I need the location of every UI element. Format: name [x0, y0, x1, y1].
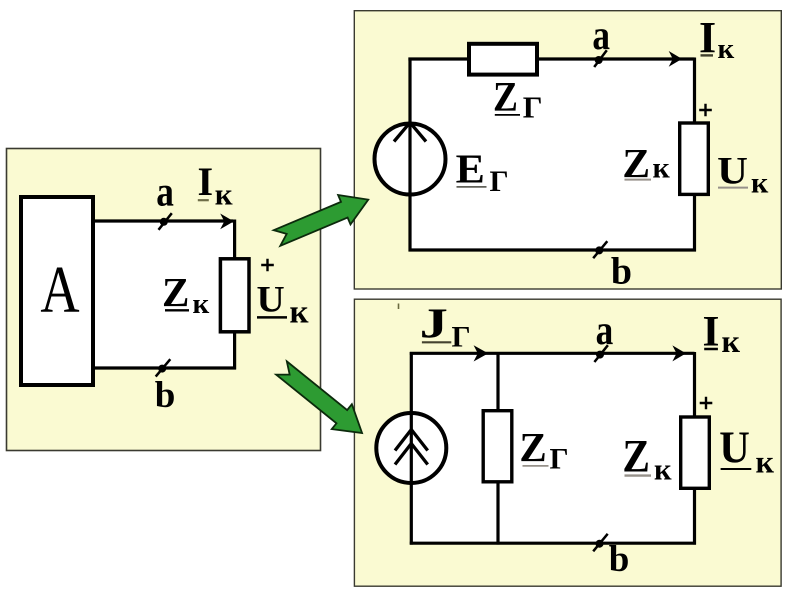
wire right vertical bottom (Thevenin) — [693, 196, 696, 252]
label A — [40, 253, 79, 327]
node a slash mark (left panel) — [159, 213, 172, 230]
svg-text:Z: Z — [493, 74, 518, 120]
label Uk (Thevenin) — [717, 148, 769, 200]
svg-text:к: к — [290, 295, 309, 331]
current arrowhead Ik (left panel) — [220, 214, 234, 230]
EMF source Eg arrow barbs — [394, 123, 426, 142]
current source Jg chevron 2 — [395, 444, 428, 465]
Thevenin circuit interior (white) — [410, 59, 695, 250]
node a label (left panel) — [156, 169, 174, 216]
svg-text:Г: Г — [523, 89, 543, 124]
label Uk (left panel) — [256, 280, 308, 331]
impedance Zg shunt box (Norton) — [483, 411, 512, 482]
wire top a (left panel) — [95, 219, 233, 222]
top-right panel (Thevenin equivalent circuit) — [354, 11, 781, 289]
svg-text:U: U — [717, 148, 748, 192]
svg-text:к: к — [722, 323, 741, 359]
polarity plus (Norton) — [700, 397, 713, 410]
svg-text:к: к — [756, 444, 775, 480]
label Zk (Norton) — [622, 430, 672, 486]
svg-text:Г: Г — [490, 165, 509, 198]
label Zk (Thevenin) — [622, 140, 670, 186]
svg-text:J: J — [420, 299, 448, 347]
left panel (active two-terminal network) — [7, 149, 321, 451]
wire right vertical top (left panel) — [233, 220, 236, 259]
current arrowhead Ik (Norton) — [672, 345, 686, 361]
label Zk (left panel) — [162, 269, 209, 320]
current arrowhead Jg (Norton) — [474, 345, 489, 361]
Norton circuit interior (white) — [411, 353, 694, 543]
node b slash mark (Thevenin) — [593, 241, 607, 258]
left panel circuit interior (white) — [95, 221, 235, 368]
label Zg (Norton) — [519, 424, 568, 476]
equivalence arrow to Norton (lower green arrow) — [271, 356, 372, 446]
polarity plus (left panel) — [261, 259, 274, 272]
node b slash mark (Norton) — [593, 534, 608, 552]
current arrowhead Ik (Thevenin) — [669, 51, 682, 67]
wire bottom (Norton) — [410, 542, 696, 545]
EMF source Eg circle (Thevenin) — [375, 124, 446, 195]
node a label (Norton) — [596, 307, 614, 354]
label Uk (Norton) — [719, 422, 774, 480]
svg-text:Z: Z — [622, 430, 650, 482]
node a slash mark (Norton) — [594, 345, 608, 362]
wire top-left (Thevenin) — [408, 57, 469, 60]
current source Jg arrow shaft — [410, 411, 413, 485]
svg-text:a: a — [596, 307, 614, 354]
wire bottom (Thevenin) — [409, 248, 697, 251]
node a slash mark (Thevenin) — [594, 50, 607, 67]
wire right vertical bottom (Norton) — [693, 488, 696, 545]
label Eg (Thevenin) — [456, 147, 509, 198]
impedance Zg series box (Thevenin) — [469, 44, 537, 75]
svg-text:к: к — [718, 33, 735, 65]
svg-text:к: к — [654, 453, 672, 487]
svg-text:U: U — [256, 280, 284, 321]
impedance Zk load box (left panel) — [220, 259, 249, 332]
wire top (Zg to node a to corner, Thevenin) — [537, 57, 695, 60]
svg-text:b: b — [611, 251, 632, 293]
impedance Zk load box (Norton) — [681, 417, 710, 488]
wire Zg branch top (Norton) — [496, 353, 499, 410]
svg-text:b: b — [609, 539, 630, 580]
node b slash mark (left panel) — [156, 359, 171, 376]
svg-text:к: к — [193, 288, 210, 320]
current source Jg circle (Norton) — [376, 413, 446, 483]
svg-text:к: к — [653, 152, 671, 185]
wire Zg branch bottom (Norton) — [496, 482, 499, 545]
node a label (Thevenin) — [592, 12, 610, 59]
label Ik (left panel) — [198, 159, 233, 212]
svg-text:I: I — [198, 159, 214, 204]
wire left vertical (Norton) — [410, 352, 413, 545]
svg-text:Г: Г — [452, 320, 471, 353]
current source Jg chevron 1 — [395, 430, 428, 451]
wire right vertical top (Thevenin) — [693, 58, 696, 123]
wire bottom b (left panel) — [95, 366, 236, 369]
svg-text:a: a — [156, 169, 174, 216]
label Ik (Norton) — [703, 307, 741, 359]
svg-text:к: к — [751, 167, 769, 200]
svg-text:a: a — [592, 12, 610, 59]
svg-text:к: к — [215, 177, 233, 212]
svg-text:E: E — [456, 147, 485, 192]
label Jg (Norton) — [420, 299, 471, 353]
block A (active network box) — [21, 197, 93, 385]
wire right vertical bottom (left panel) — [233, 332, 236, 370]
wire left vertical (Thevenin) — [408, 58, 411, 252]
svg-text:U: U — [719, 422, 750, 473]
impedance Zk load box (Thevenin) — [680, 123, 709, 194]
svg-text:А: А — [40, 253, 79, 327]
svg-text:b: b — [155, 375, 176, 416]
svg-text:Z: Z — [519, 424, 546, 470]
EMF source Eg arrow shaft — [408, 122, 411, 197]
wire top (Jg to junction to node a, Norton) — [410, 352, 695, 355]
label Zg (Thevenin) — [493, 74, 542, 124]
label Ik (Thevenin) — [699, 13, 735, 65]
equivalence arrow to Thevenin (upper green arrow) — [271, 185, 375, 253]
bottom-right panel (Norton equivalent circuit) — [354, 299, 781, 586]
wire right vertical top (Norton) — [693, 352, 696, 416]
svg-text:Г: Г — [550, 443, 569, 476]
svg-text:Z: Z — [162, 269, 189, 315]
polarity plus (Thevenin) — [699, 104, 712, 117]
stray tick mark — [398, 304, 400, 310]
